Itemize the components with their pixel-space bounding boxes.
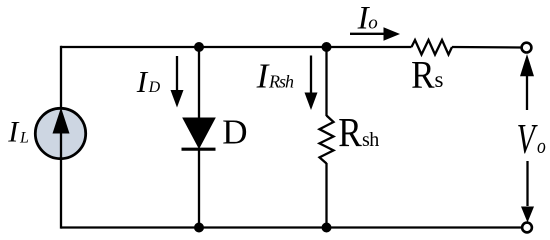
wire diode branch lower (198, 149, 200, 228)
svg-text:o: o (537, 134, 546, 158)
svg-text:I: I (136, 64, 149, 99)
diode D triangle (183, 118, 215, 148)
current source I_L circle (35, 108, 85, 158)
svg-text:sh: sh (362, 129, 379, 151)
label I_L (7, 116, 29, 149)
wire Rsh branch upper (325, 47, 327, 116)
diode D cathode bar (182, 148, 216, 151)
svg-text:D: D (148, 79, 161, 96)
resistor Rs zigzag (412, 40, 453, 55)
svg-text:I: I (7, 116, 20, 149)
arrow I_D (176, 56, 178, 92)
label V_o (517, 116, 538, 162)
wire left vertical lower (60, 158, 62, 229)
svg-text:o: o (368, 13, 378, 34)
svg-text:R: R (411, 54, 435, 97)
wire bottom horizontal (61, 226, 522, 228)
arrow V_o lower (pointing down) (526, 161, 528, 206)
current source arrow shaft (60, 132, 62, 158)
label R_s (411, 54, 435, 97)
svg-text:s: s (435, 67, 444, 92)
arrow I_o (350, 33, 386, 35)
svg-text:L: L (19, 130, 29, 147)
wire top-left horizontal (61, 46, 412, 48)
svg-text:Rsh: Rsh (268, 71, 294, 91)
svg-text:V: V (517, 116, 538, 162)
label R_sh (338, 110, 362, 155)
wire left vertical (60, 46, 62, 109)
junction dot top-left (194, 42, 204, 52)
arrow I_Rsh (310, 56, 312, 95)
wire top-right to terminal (452, 46, 522, 49)
terminal bottom-right (522, 223, 532, 233)
wire Rsh branch lower (325, 163, 327, 228)
current source arrowhead (53, 108, 70, 134)
junction dot top-right (322, 42, 332, 52)
junction dot bottom-right (322, 223, 332, 233)
svg-text:R: R (338, 110, 362, 155)
arrow V_o upper (pointing up) (526, 74, 528, 110)
wire diode branch upper (198, 47, 200, 119)
terminal top-right (522, 43, 532, 53)
svg-text:D: D (222, 113, 247, 152)
resistor Rsh zigzag (320, 116, 334, 164)
junction dot bottom-left (194, 223, 204, 233)
